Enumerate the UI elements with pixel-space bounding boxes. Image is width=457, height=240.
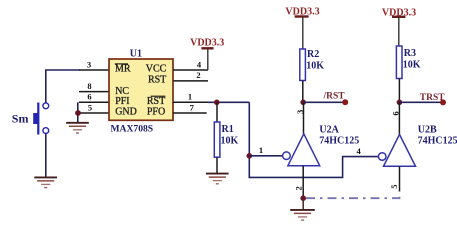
wire from switch bottom to ground [45,134,47,177]
svg-text:8: 8 [87,81,91,91]
power VDD3.3 (above U1 VCC) [190,38,224,70]
svg-text:74HC125: 74HC125 [319,136,359,147]
svg-text:5: 5 [389,185,399,189]
svg-text:74HC125: 74HC125 [418,136,457,147]
wire U1 pin1 to node and right [208,101,249,103]
U1 pin 6 (PFI) [79,92,109,103]
ground (below R1) [206,174,229,184]
junction (U2A input / ground) [300,195,306,201]
svg-text:6: 6 [390,111,400,115]
svg-text:VDD3.3: VDD3.3 [190,38,224,49]
resistor R3 [396,46,420,102]
svg-text:10K: 10K [306,61,324,72]
svg-text:R2: R2 [307,49,319,60]
svg-text:2: 2 [294,186,304,190]
wire (selected, dashed) U2A input to U2B input [306,191,400,198]
junction (TRST node) [397,100,403,106]
wire /RST stub [303,101,345,103]
IC U1 MAX708S body with pin name labels [109,49,173,135]
junction (/RST node) [300,100,306,106]
U1 pin 2 (RST) [173,70,208,81]
junction (pin5/pin6 ground tie) [75,110,81,116]
svg-text:Sm: Sm [12,111,29,125]
svg-text:U2B: U2B [418,125,437,136]
switch Sm [12,103,49,135]
svg-text:1: 1 [188,91,192,101]
U1 pin 1 (RST-bar) [173,91,208,102]
svg-text:/RST: /RST [323,92,346,102]
svg-text:R1: R1 [222,124,234,135]
junction (pin1 / R1) [214,100,220,106]
ground (below U2A input) [290,198,315,220]
svg-text:U2A: U2A [319,125,339,136]
power VDD3.3 (above R3) [382,7,416,46]
svg-text:U1: U1 [130,49,142,60]
svg-text:7: 7 [190,102,195,112]
svg-text:VCC: VCC [146,64,167,75]
svg-text:PFO: PFO [147,107,165,118]
U1 pin 4 (VCC) [173,59,208,70]
svg-text:RST: RST [148,74,166,85]
svg-text:GND: GND [115,107,137,118]
buffer U2A 74HC125 with pin numbers 1,2,3 [283,102,360,198]
U1 pin 3 (MR) [79,59,109,70]
node TRST label [420,93,446,105]
svg-text:10K: 10K [403,60,421,71]
buffer U2B 74HC125 with pin numbers 4,5,6 [356,102,457,191]
U1 pin 5 (GND) [78,102,109,113]
svg-text:PFI: PFI [115,96,129,107]
U1 pin 8 (NC) [79,81,109,92]
U1 pin 7 (PFO) [173,102,207,113]
svg-text:MR: MR [115,64,131,75]
wire to U2A enable [249,145,282,156]
resistor R2 [300,49,324,102]
wire PFI/GND tie to ground [77,102,79,122]
power VDD3.3 (above R2) [285,6,319,49]
svg-text:MAX708S: MAX708S [111,123,154,134]
svg-text:1: 1 [259,145,263,155]
svg-text:3: 3 [87,59,91,69]
junction (enable branch) [247,153,253,159]
resistor R1 [214,102,238,173]
ground (below U1 GND pin) [66,123,89,133]
svg-text:4: 4 [356,146,361,156]
svg-text:2: 2 [196,70,200,80]
wire node down to enables [249,102,378,177]
svg-text:5: 5 [88,102,92,112]
wire from switch top to U1 pin 3 [46,70,80,104]
svg-text:3: 3 [295,110,305,114]
svg-text:RST: RST [147,96,165,107]
node /RST label [323,92,349,106]
svg-text:R3: R3 [404,48,416,59]
svg-text:10K: 10K [221,136,239,147]
svg-text:6: 6 [87,92,91,102]
ground (below switch) [34,177,57,187]
wire TRST stub [399,101,443,103]
